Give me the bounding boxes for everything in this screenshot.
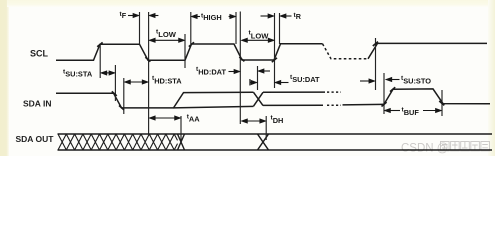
arrow tLOW first	[150, 39, 184, 41]
SDA IN low rail dots	[327, 104, 341, 106]
svg-text:tLOW: tLOW	[156, 28, 177, 38]
vertical reference lines	[100, 12, 442, 141]
svg-text:SDA OUT: SDA OUT	[16, 134, 55, 144]
ref line SCL fall1 long x148.6	[148, 12, 150, 134]
svg-text:tHIGH: tHIGH	[201, 12, 222, 21]
svg-text:CSDN @: CSDN @	[401, 143, 448, 155]
svg-text:tHD:DAT: tHD:DAT	[196, 66, 226, 76]
arrow tR left	[261, 15, 274, 17]
arrow tAA	[150, 117, 180, 119]
SDA IN crossover X1	[254, 92, 264, 106]
svg-text:tHD:STA: tHD:STA	[152, 75, 182, 86]
ref line tHIGH right x236	[235, 12, 237, 44]
arrow tSU:DAT right outside	[275, 82, 288, 84]
svg-text:tSU:DAT: tSU:DAT	[290, 74, 320, 84]
svg-text:tAA: tAA	[187, 113, 201, 123]
arrow tLOW second	[242, 39, 274, 41]
right border strip	[488, 0, 495, 156]
arrow tF left	[128, 15, 138, 17]
tick SCL fall1 bottom	[145, 57, 150, 61]
svg-text:tSU:STO: tSU:STO	[401, 75, 431, 86]
SDA OUT hatched region	[58, 134, 185, 150]
SDA OUT bottom rail	[58, 149, 493, 151]
SDA IN low rail	[263, 104, 323, 106]
ref line SDA stop rise x384	[383, 73, 385, 114]
arrow tDH	[242, 120, 265, 122]
ref line tSU:DAT tick x249.9	[249, 79, 251, 86]
arrow tBUF left	[385, 110, 400, 112]
arrow tHD:STA	[125, 81, 148, 83]
svg-text:SCL: SCL	[30, 49, 49, 59]
ref line tHIGH left x190.8	[190, 12, 192, 44]
measurement arrows	[101, 14, 441, 123]
svg-text:SDA IN: SDA IN	[23, 99, 52, 109]
tick SDA fall bottom	[119, 106, 124, 110]
SDA OUT hatch-end X	[178, 134, 185, 150]
arrow tHIGH left	[192, 16, 200, 18]
ref line SCL rise4 x375.5	[375, 38, 377, 90]
svg-text:tSU:STA: tSU:STA	[63, 68, 93, 78]
ref line SCL rise2 bottom x185	[184, 34, 186, 68]
arrow tBUF right	[423, 110, 441, 112]
arrow tSU:STA	[101, 72, 114, 74]
ref line SCL rise3 x274.5	[274, 13, 276, 88]
tick SCL rise4 top	[373, 42, 378, 46]
arrow tF right	[150, 15, 159, 17]
tick SDA stop fall bottom	[439, 101, 444, 105]
svg-text:tDH: tDH	[271, 115, 284, 125]
ref line tF left x139.5	[139, 12, 141, 44]
tick SDA stop rise top	[390, 87, 395, 91]
arrow tR right	[281, 15, 292, 17]
ref line tR right x279.5	[279, 13, 281, 44]
SCL waveform solid left	[56, 44, 323, 61]
tick SCL rise2 top	[189, 42, 194, 46]
watermark CSDN	[401, 142, 490, 155]
svg-text:tLOW: tLOW	[249, 30, 270, 41]
ref line SDA OUT change2 x266.2	[265, 116, 267, 140]
tick SCL rise3 bottom	[272, 58, 277, 62]
SCL waveform dashed section	[323, 44, 369, 59]
ref line SDA stop fall x442	[441, 90, 443, 116]
SDA OUT top rail	[58, 133, 493, 135]
svg-text:tR: tR	[294, 12, 302, 21]
ref line SDA fall start x115	[114, 65, 116, 101]
SDA IN stop pulse	[384, 89, 490, 104]
tick SDA fall top	[112, 91, 117, 95]
tick SCL fall2 bottom	[239, 57, 244, 61]
svg-text:tBUF: tBUF	[402, 107, 420, 118]
SDA IN low rail resumed	[343, 103, 385, 106]
SDA IN high rail	[263, 91, 325, 93]
arrow tSU:STO right	[386, 79, 399, 81]
tick SCL rise1 top	[97, 42, 102, 46]
ref line SCL fall2 long x241	[239, 12, 241, 125]
arrow tHIGH right	[229, 16, 236, 18]
ref line SCL rise1 top x100	[99, 44, 101, 78]
arrow tHD:DAT right outside	[259, 70, 270, 72]
ramp crossing ticks	[97, 42, 444, 110]
SDA OUT crossover X2	[258, 134, 269, 150]
top border strip	[7, 0, 495, 7]
SDA IN high rail dots	[327, 91, 341, 93]
arrow tHD:DAT	[229, 71, 240, 73]
ref line SDA X1 x257.5	[257, 66, 259, 90]
arrow tSU:DAT left outside	[250, 82, 256, 84]
arrow tSU:STO left	[360, 80, 374, 82]
ref line SDA OUT change1 x181	[180, 116, 182, 140]
SCL waveform solid right	[368, 43, 487, 58]
SDA IN waveform left	[56, 92, 254, 108]
ref line SDA fall end x124	[123, 78, 125, 114]
left border strip	[0, 0, 9, 156]
tick SDA stop rise bottom	[382, 102, 387, 106]
SDA IN low rail under data	[174, 106, 254, 108]
